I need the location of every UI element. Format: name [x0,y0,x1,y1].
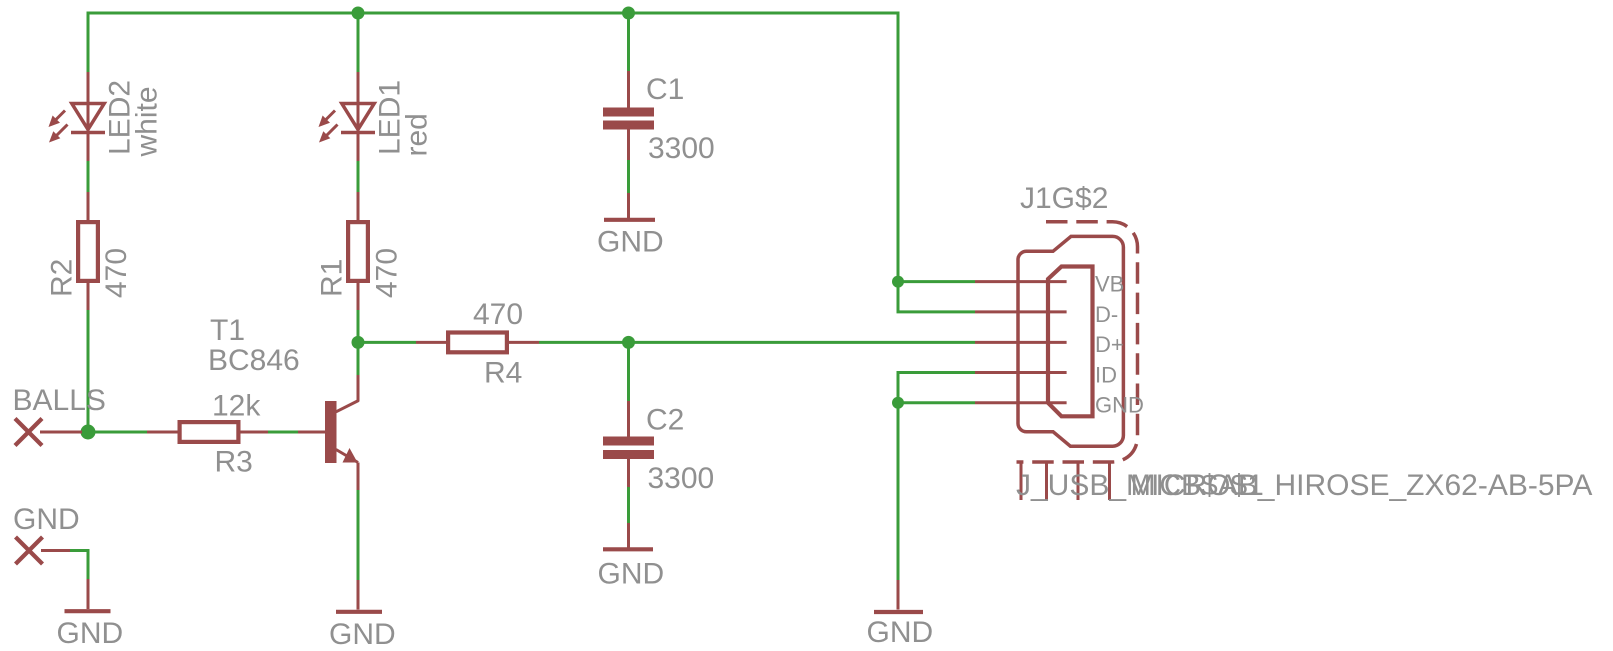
LED1 cathode pin [357,131,360,161]
R1 body [348,222,368,281]
LED1 arrow 2 [319,125,338,143]
C2 top plate [603,437,654,446]
svg-text:GND: GND [13,503,80,536]
R3 body [180,422,239,442]
LED2 triangle [72,104,104,130]
T1 collector diagonal [336,401,359,412]
net flag BALLS [15,419,42,446]
svg-text:D-: D- [1095,302,1118,327]
wire rail to C1 [627,13,630,71]
LED2 anode pin [87,72,90,133]
LED1 triangle [342,104,374,130]
svg-text:GND: GND [329,618,396,651]
C2 gnd pin [627,523,630,548]
GND flag stub [41,549,70,552]
wire USB GND node to GND symbol [897,403,900,580]
svg-text:3300: 3300 [648,462,715,495]
ground symbol left [65,609,111,613]
wire VB [898,280,975,283]
node D+ C2 [622,336,635,349]
svg-text:GND: GND [1095,393,1144,418]
wire ID to GND node [898,373,975,403]
J1 pin ID [975,371,1067,374]
svg-text:R3: R3 [215,446,253,479]
svg-text:R1: R1 [316,259,349,297]
svg-text:12k: 12k [212,390,261,423]
svg-text:BC846: BC846 [208,344,300,377]
J1 pad stub 1 [1020,462,1023,500]
C2 top pin [627,401,630,437]
svg-text:D+: D+ [1095,332,1124,357]
wire R1 to collector node [357,310,360,375]
C2 bottom plate [603,450,654,459]
wire node to C2 [627,342,630,401]
GND flag bottom pin [87,579,90,609]
wire rail to LED1 [357,13,360,72]
C1 top pin [627,71,630,108]
LED2 arrow 2 [49,125,68,143]
svg-text:470: 470 [473,298,523,331]
node rail-LED1 [352,7,365,20]
wire LED2 to R2 [87,161,90,192]
wire VCC rail top [88,13,898,282]
svg-text:BALLS: BALLS [13,384,106,417]
wire R4 to USB D+ [539,341,975,344]
svg-text:C2: C2 [646,404,684,437]
LED2 arrow 1 [49,111,66,128]
J1 pin VB [975,280,1067,283]
R1 top pin [357,192,360,221]
J1 package dashed outline [1017,222,1138,462]
LED1 anode pin [357,72,360,133]
T1 collector pin [357,375,360,402]
node USB GND [892,397,904,409]
node collector-R4 [352,336,365,349]
R2 top pin [87,192,90,221]
node rail-C1 [622,7,635,20]
svg-text:T1: T1 [210,314,245,347]
J1 outer shell [1018,236,1123,446]
LED1 cathode bar [341,131,375,135]
node VB [892,276,904,288]
J1 pin GND [975,401,1067,404]
T1 emitter pin [357,463,360,491]
USB right branch gnd pin [897,580,900,610]
R4 body [448,333,507,353]
wire LED1 to R1 [357,161,360,192]
T1 emitter bottom pin [357,580,360,610]
R4 right pin [508,341,539,344]
T1 emitter diagonal [336,450,358,463]
svg-text:red: red [401,113,434,156]
svg-text:GND: GND [597,225,664,258]
svg-text:470: 470 [100,248,133,298]
LED2 cathode bar [71,131,105,135]
R2 bottom pin [87,282,90,310]
wire C2 to GND [627,487,630,523]
C1 top plate [603,108,654,117]
T1 base bar [325,401,337,463]
J1 tongue [1048,267,1093,417]
wire GND flag to GND symbol [70,551,88,580]
R1 bottom pin [357,282,360,310]
svg-text:R2: R2 [46,259,79,297]
BALLS stub [40,431,82,434]
svg-text:3300: 3300 [648,132,715,165]
wire VB node to D- [898,282,975,312]
LED1 arrow 1 [319,111,336,128]
ground symbol C1 [604,218,655,222]
J1 pad stub 4 [1108,462,1111,500]
svg-text:470: 470 [371,248,404,298]
svg-text:J1G$2: J1G$2 [1020,182,1108,215]
svg-text:ID: ID [1095,362,1117,387]
C2 bottom pin [627,459,630,487]
wire T1 emitter to GND [357,490,360,580]
T1 base pin [298,431,325,434]
R2 body [78,222,98,281]
svg-text:white: white [131,86,164,157]
svg-text:GND: GND [598,558,665,591]
svg-text:VB: VB [1095,272,1124,297]
C1 bottom pin [627,129,630,160]
svg-text:C1: C1 [646,73,684,106]
J1 pin D+ [975,341,1067,344]
R4 left pin [416,341,447,344]
J1 pad stub 3 [1077,462,1080,500]
wire BALLS node to R3 [82,431,147,434]
wire USB GND pin [898,401,975,404]
R3 left pin [147,431,178,434]
R3 right pin [240,431,268,434]
T1 emitter arrow [343,448,358,463]
ground symbol C2 [603,547,653,551]
C1 bottom plate [603,121,654,130]
svg-text:J_USB_MICB$AB_HIROSE_ZX62-AB-5: J_USB_MICB$AB_HIROSE_ZX62-AB-5PA [1016,469,1592,502]
J1 pad stub 2 [1045,462,1048,500]
C1 gnd pin [627,193,630,218]
wire node to R4 [358,341,416,344]
ground symbol T1 emitter [336,610,382,614]
svg-text:GND: GND [57,617,124,650]
ground symbol USB [874,610,923,614]
svg-text:MICRO$1: MICRO$1 [1131,469,1264,502]
LED2 cathode pin [87,131,90,161]
net flag GND left [16,537,43,564]
wire R3 to T1 base [268,431,298,434]
svg-text:GND: GND [867,616,934,649]
wire C1 to GND [627,160,630,193]
svg-text:R4: R4 [484,357,522,390]
J1 pin D- [975,310,1067,313]
node BALLS [81,425,96,440]
wire R2 to BALLS node [87,310,90,434]
